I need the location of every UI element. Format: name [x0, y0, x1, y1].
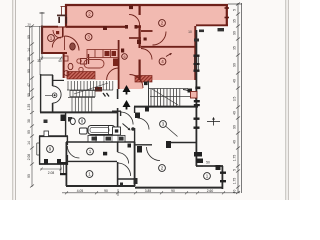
svg-text:90: 90 — [233, 125, 237, 129]
room C right wall — [66, 136, 68, 145]
window jamb marks left wall room 2 — [58, 17, 60, 23]
staircase lower flight treads — [68, 97, 95, 112]
svg-text:38: 38 — [27, 119, 31, 123]
wall top outer — [65, 4, 228, 6]
svg-text:47: 47 — [27, 83, 31, 87]
right flight treads — [149, 81, 195, 106]
bath fixtures: wc — [68, 63, 73, 69]
room F right wall — [221, 166, 223, 189]
svg-text:38: 38 — [37, 59, 41, 63]
stair knob circle — [52, 93, 57, 98]
rooms A/B left outer wall — [65, 142, 67, 186]
chamber outer wall left — [40, 74, 42, 112]
dining table oval — [84, 60, 104, 69]
staircase middle rail — [70, 91, 95, 97]
svg-text:90: 90 — [27, 69, 31, 73]
dimension labels left — [27, 35, 31, 178]
svg-text:35: 35 — [233, 46, 237, 50]
vestibule door marks — [121, 49, 124, 53]
corridor corner jamb — [128, 144, 132, 148]
svg-text:40: 40 — [233, 79, 237, 83]
room E entry arc — [147, 147, 161, 161]
entry arrow lower — [123, 100, 131, 110]
svg-text:40: 40 — [233, 140, 237, 144]
room D diagonal annotation — [166, 127, 178, 137]
hall inner wall — [112, 110, 121, 112]
kitchen counter row room 3 — [77, 50, 118, 72]
svg-text:14: 14 — [27, 48, 31, 52]
room A top wall — [66, 141, 135, 143]
hall left wall — [117, 89, 119, 99]
chimney mark top — [129, 6, 133, 10]
svg-text:2.08: 2.08 — [48, 171, 55, 175]
room number C — [47, 146, 54, 153]
lightwell white notch — [58, 17, 66, 27]
window sill bar room 2 — [57, 14, 67, 16]
svg-text:90: 90 — [27, 130, 31, 134]
room B bottom wall — [66, 185, 135, 187]
small dark mark near chamber — [44, 120, 48, 124]
room number 4 — [159, 58, 166, 65]
room 4 top wall — [141, 46, 196, 48]
chair — [77, 59, 81, 63]
room 4 door arc — [141, 49, 152, 60]
stair right flight bottom wall — [134, 106, 198, 108]
small room 1 right wall — [62, 27, 64, 37]
svg-text:5: 5 — [233, 169, 237, 171]
apartment entry door highlighted — [191, 92, 198, 99]
window right wing wall upper — [194, 56, 198, 70]
svg-text:90: 90 — [27, 93, 31, 97]
closet stub wall — [129, 37, 141, 39]
svg-text:4.05: 4.05 — [77, 189, 84, 193]
svg-text:90: 90 — [27, 35, 31, 39]
window room F right — [220, 172, 226, 183]
room number E — [159, 165, 166, 172]
bath left wall — [65, 113, 67, 136]
svg-text:1: 1 — [89, 149, 92, 154]
svg-text:40: 40 — [58, 59, 62, 63]
stairwell left wall — [52, 75, 54, 86]
vestibule door arc upper — [107, 68, 119, 80]
chamber top wall — [40, 74, 53, 76]
right flight door arc — [183, 90, 196, 104]
small room 1 left wall — [41, 26, 43, 55]
svg-text:3: 3 — [162, 122, 165, 127]
room number top-right — [159, 20, 166, 27]
small room 1 top wall — [41, 26, 58, 28]
svg-text:2: 2 — [161, 166, 164, 171]
window on left wall room 2 — [61, 7, 67, 16]
stairwell bottom wall — [40, 111, 118, 113]
svg-text:2.08: 2.08 — [27, 154, 31, 161]
washing machine — [80, 128, 88, 134]
svg-text:5: 5 — [233, 9, 237, 11]
room C door arc — [67, 146, 79, 158]
dim below room C — [40, 168, 62, 171]
bath fixtures: boiler — [64, 71, 69, 76]
wall right outer of top-right room — [226, 4, 228, 26]
room D bottom wall — [171, 142, 196, 144]
hall dark dot — [131, 127, 135, 131]
entry arrow upper — [123, 85, 131, 95]
svg-text:1.75: 1.75 — [233, 178, 237, 185]
dimension chain bottom — [62, 191, 240, 194]
door arc room2/room4 — [129, 15, 140, 26]
room C left wall — [39, 136, 41, 165]
window right wing wall lower — [194, 118, 200, 129]
svg-text:90: 90 — [171, 189, 175, 193]
dimension chain right — [228, 3, 242, 195]
corridor door arc — [153, 32, 167, 46]
threshold mark below room 4 — [144, 82, 148, 86]
small arrow annotation room 4 — [166, 54, 171, 57]
window on right wall top-right room — [225, 8, 230, 18]
diag arrow in hall — [123, 124, 130, 130]
room 1 door arc — [52, 37, 63, 48]
bath fixtures: sink — [81, 59, 87, 65]
svg-text:1: 1 — [88, 172, 91, 177]
vestibule door arc lower — [130, 75, 144, 89]
vestibule number — [122, 54, 128, 60]
highlighted apartment pink area — [41, 4, 228, 89]
svg-text:90: 90 — [233, 31, 237, 35]
room D entry jamb — [135, 113, 140, 119]
svg-text:1: 1 — [206, 174, 209, 179]
stair diagonal direction line — [74, 83, 108, 94]
svg-text:90: 90 — [233, 63, 237, 67]
wall left of room 2 — [65, 4, 67, 28]
room number 2 — [86, 11, 93, 18]
stair mid tiny marks — [103, 93, 106, 97]
square-in-square unit — [113, 127, 121, 135]
small room 1 bottom wall — [41, 52, 67, 54]
room E door jamb marks — [137, 146, 142, 153]
svg-text:10: 10 — [188, 30, 192, 34]
svg-text:14: 14 — [27, 141, 31, 145]
page fold line left — [13, 0, 16, 200]
kitchen counter row — [88, 135, 125, 141]
room F top wall — [196, 165, 223, 167]
page fold line right — [286, 0, 289, 200]
door threshold dark mark — [95, 87, 102, 92]
door marks right wing — [194, 152, 202, 157]
svg-text:90: 90 — [104, 189, 108, 193]
window jamb dashes on right wall — [195, 87, 200, 90]
window room B left — [61, 164, 64, 174]
room D left wall — [134, 107, 136, 113]
stairwell top wall — [52, 79, 64, 81]
bath left outer wall — [63, 52, 65, 78]
wall right outer middle — [194, 26, 196, 80]
wall between room 2 and room 3 — [66, 26, 126, 28]
hall entry arc — [121, 112, 134, 125]
corridor lower wall — [117, 178, 137, 180]
svg-text:9: 9 — [49, 147, 52, 152]
wc in shower room — [70, 43, 76, 50]
horizontal dim 40 — [40, 57, 63, 60]
room number A — [87, 148, 94, 155]
room 1 corner mark — [56, 31, 59, 34]
bathtub — [88, 126, 115, 135]
room number D — [160, 121, 167, 128]
corridor stub wall — [141, 30, 153, 32]
room number B — [86, 171, 93, 178]
svg-text:38: 38 — [27, 57, 31, 61]
dimension chain left — [30, 25, 35, 188]
cross mark symbol — [207, 118, 220, 126]
room A/B divider wall — [66, 160, 117, 162]
left extension lines top — [25, 12, 118, 196]
room C bottom wall — [39, 163, 68, 165]
balcony railing hatched right — [135, 76, 152, 83]
room number 3 — [85, 34, 92, 41]
svg-text:35: 35 — [233, 19, 237, 23]
svg-text:50: 50 — [206, 161, 210, 165]
svg-text:3.85: 3.85 — [145, 189, 152, 193]
window room C left — [37, 143, 40, 155]
balcony railing hatched left — [67, 72, 95, 80]
svg-text:3.5: 3.5 — [233, 97, 237, 102]
bath room number circle — [79, 118, 85, 124]
rooms B right wall — [134, 142, 136, 186]
svg-text:1.75: 1.75 — [233, 155, 237, 162]
vestibule left wall — [118, 40, 120, 89]
svg-text:90: 90 — [27, 174, 31, 178]
room number F — [204, 173, 211, 180]
room A door arc — [118, 153, 129, 164]
door marks mid wall — [103, 26, 107, 30]
fridge dark block — [113, 59, 118, 67]
notch marks below top-right room — [194, 28, 224, 42]
svg-text:40: 40 — [233, 111, 237, 115]
svg-text:1.35: 1.35 — [27, 104, 31, 111]
stove burners dark — [105, 51, 110, 56]
apartment walls (dark red) — [41, 4, 228, 89]
svg-text:20: 20 — [28, 23, 32, 27]
stairwell door semicircle — [53, 86, 62, 103]
dimension labels right — [233, 9, 237, 193]
right wing outer wall — [195, 30, 197, 166]
chain tick into door — [45, 95, 52, 97]
bath right wall — [88, 54, 90, 64]
wall bottom of top-right room — [196, 24, 228, 26]
room number 1 — [48, 35, 55, 42]
wall vertical between room 2 and top-right room — [139, 4, 141, 15]
rooms E/F bottom wall — [135, 187, 223, 189]
corridor door arc lower — [118, 163, 131, 176]
svg-text:6: 6 — [123, 55, 125, 59]
bath wc with tank — [68, 117, 72, 122]
room C top wall — [39, 135, 68, 137]
dark door mark bath — [61, 115, 66, 122]
shower quarter arc — [65, 36, 80, 51]
svg-text:2.60: 2.60 — [207, 189, 214, 193]
room D entry arc — [138, 118, 150, 130]
wall jamb mark mid — [137, 40, 141, 45]
room C bottom door jambs — [44, 159, 48, 165]
staircase upper flight treads — [67, 81, 113, 90]
